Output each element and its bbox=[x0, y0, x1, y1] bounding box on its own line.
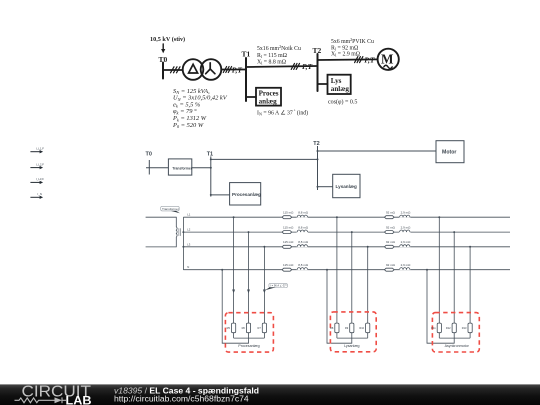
svg-text:Procesanlæg: Procesanlæg bbox=[238, 344, 259, 348]
svg-text:N: N bbox=[187, 265, 189, 269]
svg-text:2,9 mΩ: 2,9 mΩ bbox=[401, 211, 412, 215]
svg-text:92 mΩ: 92 mΩ bbox=[386, 211, 396, 215]
svg-text:I_N: I_N bbox=[37, 192, 42, 196]
svg-text:92 mΩ: 92 mΩ bbox=[386, 240, 396, 244]
svg-text:R5: R5 bbox=[227, 326, 231, 330]
svg-text:P0 = 520 W: P0 = 520 W bbox=[172, 122, 204, 129]
svg-text:P,T: P,T bbox=[302, 62, 313, 71]
svg-text:IN = 96 A ∠ 37 ° (ind): IN = 96 A ∠ 37 ° (ind) bbox=[257, 109, 308, 117]
svg-text:8,8 mΩ: 8,8 mΩ bbox=[298, 225, 309, 229]
svg-text:Transformer: Transformer bbox=[172, 167, 192, 171]
svg-text:I_L2,F: I_L2,F bbox=[36, 162, 44, 166]
svg-text:anlæg: anlæg bbox=[331, 85, 350, 93]
svg-text:I_L1,F: I_L1,F bbox=[36, 147, 44, 151]
svg-text:8,8 mΩ: 8,8 mΩ bbox=[298, 263, 309, 267]
svg-text:Lysanlæg: Lysanlæg bbox=[336, 184, 357, 189]
svg-text:M: M bbox=[381, 51, 394, 66]
svg-text:I_L3,F: I_L3,F bbox=[36, 177, 44, 181]
svg-text:92 mΩ: 92 mΩ bbox=[386, 263, 396, 267]
svg-text:115 mΩ: 115 mΩ bbox=[283, 240, 294, 244]
svg-text:2,9 mΩ: 2,9 mΩ bbox=[401, 240, 412, 244]
svg-text:Procesanlæg: Procesanlæg bbox=[232, 192, 261, 197]
svg-text:I = 96 A ∠-37°: I = 96 A ∠-37° bbox=[270, 283, 287, 287]
svg-text:8,8 mΩ: 8,8 mΩ bbox=[298, 240, 309, 244]
svg-text:cos(φ) = 0.5: cos(φ) = 0.5 bbox=[328, 99, 357, 106]
svg-text:T2: T2 bbox=[313, 141, 319, 147]
svg-text:T0: T0 bbox=[159, 55, 168, 64]
svg-text:Lysanlæg: Lysanlæg bbox=[344, 344, 359, 348]
svg-text:R6: R6 bbox=[242, 326, 246, 330]
svg-text:T0: T0 bbox=[146, 152, 152, 158]
svg-text:Transformer: Transformer bbox=[162, 207, 179, 211]
svg-text:115 mΩ: 115 mΩ bbox=[283, 263, 294, 267]
svg-text:R12: R12 bbox=[446, 326, 451, 330]
svg-text:Xl = 8.8 mΩ: Xl = 8.8 mΩ bbox=[257, 60, 287, 66]
svg-text:2,9 mΩ: 2,9 mΩ bbox=[401, 225, 412, 229]
svg-text:http://circuitlab.com/c5h68fbz: http://circuitlab.com/c5h68fbzn7c74 bbox=[114, 393, 249, 403]
svg-text:10,5 kV (stiv): 10,5 kV (stiv) bbox=[150, 36, 185, 43]
svg-text:R13: R13 bbox=[462, 326, 467, 330]
svg-text:Rl = 115 mΩ: Rl = 115 mΩ bbox=[257, 53, 288, 59]
svg-text:5x6 mm2PVIK Cu: 5x6 mm2PVIK Cu bbox=[331, 37, 374, 45]
svg-text:2,9 mΩ: 2,9 mΩ bbox=[401, 263, 412, 267]
svg-text:8,8 mΩ: 8,8 mΩ bbox=[298, 211, 309, 215]
svg-text:P,T: P,T bbox=[364, 56, 375, 65]
svg-text:anlæg: anlæg bbox=[259, 98, 278, 106]
svg-text:R10: R10 bbox=[359, 326, 364, 330]
svg-text:R11: R11 bbox=[431, 326, 436, 330]
svg-text:Proces: Proces bbox=[259, 89, 279, 97]
svg-text:T1: T1 bbox=[207, 152, 213, 158]
svg-text:115 mΩ: 115 mΩ bbox=[283, 211, 294, 215]
svg-text:L1: L1 bbox=[187, 213, 191, 217]
svg-text:Motor: Motor bbox=[442, 150, 456, 156]
svg-text:R8: R8 bbox=[330, 326, 334, 330]
svg-text:L3: L3 bbox=[187, 242, 191, 246]
svg-text:T2: T2 bbox=[313, 46, 322, 55]
svg-text:115 mΩ: 115 mΩ bbox=[283, 225, 294, 229]
svg-text:P,T: P,T bbox=[232, 66, 243, 75]
svg-text:LAB: LAB bbox=[66, 394, 92, 405]
svg-text:92 mΩ: 92 mΩ bbox=[386, 225, 396, 229]
svg-text:R9: R9 bbox=[345, 326, 349, 330]
svg-text:Asynkronmotor: Asynkronmotor bbox=[445, 344, 470, 348]
svg-text:5x16 mm2Noik Cu: 5x16 mm2Noik Cu bbox=[257, 44, 301, 52]
svg-text:T1: T1 bbox=[242, 50, 251, 59]
svg-text:Xl = 2.9 mΩ: Xl = 2.9 mΩ bbox=[331, 52, 361, 58]
svg-text:Lys: Lys bbox=[331, 77, 342, 85]
svg-text:L2: L2 bbox=[187, 228, 191, 232]
svg-text:R7: R7 bbox=[257, 326, 261, 330]
